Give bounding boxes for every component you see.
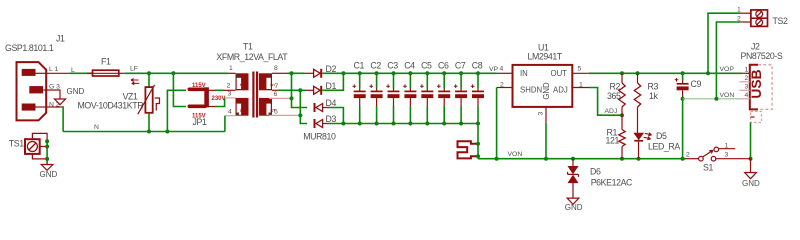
varistor VZ1 top wire — [148, 73, 150, 87]
wire L from J1 to fuse — [70, 72, 93, 74]
wire AC2 vertical to D3 cathode — [300, 90, 307, 123]
junction meander bottom lead — [476, 154, 480, 158]
wire bottom bus down to VON — [477, 124, 479, 159]
wire D1 cathode up to VP bus — [322, 73, 343, 90]
svg-text:C4: C4 — [404, 60, 415, 70]
VZ1 polarity arrow marks — [131, 79, 139, 85]
junction TS1 pin2 — [45, 145, 49, 149]
svg-text:C5: C5 — [421, 60, 432, 70]
junction bottom bus/C6 — [442, 122, 446, 126]
wire JP1 bottom pin to T1 pin3 — [209, 106, 216, 108]
connector J1 pin L blade — [22, 69, 47, 76]
junction AC2/pin5 — [298, 113, 302, 117]
junction VON/U1 GND — [544, 157, 548, 161]
wire U1 GND to VON — [545, 123, 547, 159]
svg-text:T1: T1 — [243, 42, 253, 52]
jumper JP1 top pin — [189, 88, 205, 92]
T1 pin 1 lead — [228, 72, 236, 74]
wire pin5 to AC2 vertical — [298, 114, 301, 116]
T1 winding C (pins 8-7) — [259, 73, 275, 90]
junction AC1/pin6 — [290, 96, 294, 100]
svg-text:4: 4 — [228, 109, 232, 116]
junction ADJ/R2/R1 — [620, 113, 624, 117]
resistor R2 — [607, 73, 625, 115]
J1 pin G lead — [46, 90, 60, 99]
T1 winding B (pins 3-4) — [236, 98, 249, 116]
junction C9 bottom — [681, 97, 685, 101]
diode D1 — [305, 81, 336, 95]
svg-text:3: 3 — [725, 152, 729, 159]
svg-text:VON: VON — [508, 151, 523, 158]
regulator U1 box — [513, 65, 573, 107]
capacitor C7 — [454, 60, 467, 123]
jumper JP1 bracket bar — [204, 87, 209, 107]
TS1 pin 1 lead — [32, 133, 47, 141]
svg-text:GND: GND — [67, 87, 85, 96]
terminal TS1 — [9, 139, 40, 154]
U1 OUT pin lead — [572, 72, 588, 74]
junction bottom bus/C1 — [358, 122, 362, 126]
svg-text:USB: USB — [749, 69, 764, 98]
diode D2 — [304, 64, 336, 78]
svg-text:2: 2 — [686, 152, 690, 159]
varistor VZ1 — [138, 85, 160, 114]
svg-text:2: 2 — [227, 83, 231, 90]
T1 winding D (pins 6-5) — [259, 98, 275, 116]
T1 pin 6 lead — [269, 97, 290, 99]
svg-text:LF: LF — [130, 65, 138, 72]
svg-text:4: 4 — [500, 66, 504, 73]
diode D4 — [314, 98, 337, 112]
svg-text:3: 3 — [228, 91, 232, 98]
svg-text:121: 121 — [606, 136, 620, 146]
svg-text:ADJ: ADJ — [605, 108, 618, 115]
capacitor C4 — [403, 60, 416, 123]
wire TS1 to ground — [46, 141, 48, 164]
junction bottom bus/C8 — [476, 122, 480, 126]
svg-text:N: N — [94, 124, 99, 131]
wire LF to JP1 bottom pin — [173, 73, 186, 106]
junction VON/D5 — [637, 157, 641, 161]
connector J1 body — [17, 62, 47, 120]
diode D3 — [314, 114, 337, 128]
U1 ADJ pin lead — [572, 87, 589, 89]
wire VP bus — [322, 72, 497, 74]
junction VP/C6 — [442, 71, 446, 75]
TS1 pin 2 lead — [40, 146, 47, 148]
connector J2 box — [749, 65, 772, 110]
svg-text:TS2: TS2 — [773, 16, 788, 26]
connector J1 pin N blade — [22, 104, 47, 111]
svg-text:3: 3 — [538, 112, 545, 116]
junction AC1 at pin8 row — [290, 71, 294, 75]
svg-text:C3: C3 — [387, 60, 398, 70]
svg-text:LED_RA: LED_RA — [648, 141, 680, 151]
fuse F1 — [87, 57, 125, 77]
svg-text:C9: C9 — [691, 79, 702, 89]
ground symbol at J1 — [55, 87, 85, 105]
svg-text:VON: VON — [720, 92, 735, 99]
U1 SHDN pin lead — [497, 87, 513, 89]
wire pin7 to D1 anode — [277, 89, 305, 91]
resistor R1 — [606, 115, 626, 159]
LED D5 — [634, 131, 680, 159]
wire VON row to J2 pin4 — [683, 98, 740, 100]
svg-text:GND: GND — [742, 179, 760, 188]
junction VOP/R2 — [620, 71, 624, 75]
junction shield/S1 pin3 — [749, 157, 753, 161]
svg-text:L: L — [71, 67, 75, 74]
junction N/JP1 — [165, 130, 169, 134]
junction VP/C4 — [408, 71, 412, 75]
svg-text:5: 5 — [238, 109, 244, 112]
svg-text:2: 2 — [745, 75, 749, 82]
svg-text:S1: S1 — [703, 163, 713, 173]
J2 pin 2 lead — [740, 81, 750, 83]
junction VP/C5 — [425, 71, 429, 75]
svg-text:MUR810: MUR810 — [303, 132, 336, 142]
capacitor C2 — [369, 60, 382, 123]
svg-text:C6: C6 — [438, 60, 449, 70]
capacitor C6 — [437, 60, 450, 123]
connector J1 pin G blade — [29, 86, 46, 93]
junction VOP/R3 — [636, 71, 640, 75]
U1 IN pin lead — [497, 72, 513, 74]
svg-text:MOV-10D431KTR: MOV-10D431KTR — [77, 101, 143, 111]
junction VP/D1 — [341, 71, 345, 75]
svg-text:L 1: L 1 — [49, 66, 58, 73]
junction VON/SHDN — [495, 157, 499, 161]
J1 pin N lead — [46, 106, 62, 108]
wire VON bus — [478, 158, 686, 160]
terminal TS2 — [751, 10, 788, 27]
switch S1 — [686, 142, 751, 172]
svg-text:C8: C8 — [472, 60, 483, 70]
junction LF/JP1 — [171, 71, 175, 75]
svg-text:1: 1 — [725, 142, 729, 149]
T1 pin 8 lead — [272, 72, 288, 74]
svg-text:3: 3 — [745, 84, 749, 91]
wire J2 shield to switch node — [750, 123, 752, 159]
capacitor C9 — [675, 73, 702, 99]
svg-text:C2: C2 — [370, 60, 381, 70]
junction bottom bus/C5 — [425, 122, 429, 126]
svg-text:7: 7 — [275, 83, 279, 90]
svg-text:8: 8 — [274, 65, 278, 72]
varistor VZ1 bottom wire — [148, 113, 150, 132]
junction VOP/TS2 — [706, 71, 710, 75]
wire bottom capacitor bus — [328, 123, 479, 125]
T1 core — [252, 72, 258, 118]
svg-text:GSP1.8101.1: GSP1.8101.1 — [5, 43, 54, 53]
capacitor C5 — [420, 60, 433, 123]
wire T1 pin4 to N bus — [224, 116, 226, 132]
svg-text:P6KE12AC: P6KE12AC — [591, 177, 633, 187]
junction TS1 pin1 — [45, 139, 49, 143]
junction meander top lead — [476, 142, 480, 146]
junction VP/C3 — [392, 71, 396, 75]
T1 pin 3 lead — [225, 97, 236, 99]
svg-text:D5: D5 — [656, 131, 667, 141]
T1 pin 5 lead — [269, 114, 298, 116]
svg-text:1: 1 — [745, 67, 749, 74]
svg-text:230V: 230V — [212, 96, 226, 102]
wire JP1 top pin to T1 pin2 — [209, 89, 216, 91]
wire N to JP1 top pin — [167, 90, 186, 131]
T1 winding A (pins 1-2) — [236, 73, 249, 90]
svg-text:PN87520-S: PN87520-S — [741, 51, 783, 61]
ground symbol at D6 — [565, 198, 583, 212]
junction bottom bus/C3 — [392, 122, 396, 126]
svg-text:VP: VP — [489, 66, 499, 73]
svg-text:4: 4 — [745, 92, 749, 99]
svg-text:J2: J2 — [751, 41, 760, 51]
capacitor C3 — [386, 60, 399, 123]
junction N/VZ1 — [147, 130, 151, 134]
svg-text:OUT: OUT — [551, 69, 568, 78]
capacitor C8 — [471, 60, 484, 123]
junction VON/D6 — [571, 157, 575, 161]
svg-text:SHDN: SHDN — [520, 86, 542, 95]
svg-text:D6: D6 — [590, 166, 601, 176]
svg-text:J1: J1 — [56, 34, 65, 44]
ground symbol at S1 — [742, 159, 760, 188]
junction VON/C9 — [681, 157, 685, 161]
J2 shield pad — [751, 112, 762, 123]
junction VON row/TS2 pin2 — [714, 97, 718, 101]
junction VP/C1 — [358, 71, 362, 75]
junction VP/C2 — [375, 71, 379, 75]
svg-text:GND: GND — [565, 203, 583, 212]
wire pin8 to D2 anode — [288, 72, 305, 74]
TVS diode D6 — [568, 159, 633, 198]
svg-text:GND: GND — [40, 170, 58, 179]
junction VP/C8 — [476, 71, 480, 75]
junction bottom bus/C7 — [459, 122, 463, 126]
wire ADJ net — [589, 88, 622, 116]
svg-text:LM2941T: LM2941T — [528, 52, 563, 62]
wire C9 bottom to VON bus — [682, 99, 684, 159]
svg-text:C1: C1 — [354, 60, 365, 70]
svg-text:IN: IN — [520, 69, 528, 78]
jumper JP1 bottom pin — [189, 105, 205, 109]
svg-text:115V: 115V — [192, 83, 206, 89]
wire N vertical from J1 — [62, 107, 63, 132]
wire D4 anode down to bottom bus — [328, 108, 344, 124]
svg-text:2: 2 — [238, 84, 244, 87]
wire TS2 pin1 to VOP — [708, 13, 740, 73]
TS1 pin 3 lead — [32, 154, 47, 159]
svg-text:1: 1 — [229, 65, 233, 72]
TS2 pin 1 lead — [740, 12, 751, 14]
wire VOP bus — [588, 72, 742, 74]
junction VOP/C9 — [681, 71, 685, 75]
svg-text:R3: R3 — [648, 81, 659, 91]
J2 pin 4 lead — [740, 98, 750, 100]
svg-text:5: 5 — [274, 109, 278, 116]
wire pin6 to AC1 vertical — [290, 97, 292, 99]
svg-text:C7: C7 — [455, 60, 466, 70]
svg-text:GND: GND — [542, 82, 551, 100]
U1 GND pin lead — [545, 107, 547, 123]
junction TS1 pin3 — [45, 157, 49, 161]
junction VP/C7 — [459, 71, 463, 75]
wire SHDN to VON — [496, 88, 498, 159]
wire LF bus — [125, 72, 228, 74]
svg-text:1k: 1k — [649, 91, 658, 101]
junction bottom bus/D4 — [341, 122, 345, 126]
T1 pin 7 lead — [272, 89, 277, 91]
J2 pin 3 lead — [740, 89, 750, 91]
junction VON/R1 — [620, 157, 624, 161]
junction bottom bus/C4 — [408, 122, 412, 126]
capacitor C1 — [353, 60, 366, 123]
svg-text:5: 5 — [578, 66, 582, 73]
meander wire link — [458, 141, 479, 158]
T1 pin 4 lead — [225, 115, 236, 117]
svg-text:ADJ: ADJ — [553, 86, 568, 95]
svg-text:F1: F1 — [101, 57, 111, 67]
svg-text:JP1: JP1 — [193, 117, 207, 127]
J2 pin 1 lead — [742, 72, 750, 74]
junction bottom bus/C2 — [375, 122, 379, 126]
svg-text:VOP: VOP — [720, 66, 735, 73]
wire AC1 vertical to D4 cathode — [292, 73, 308, 107]
svg-text:XFMR_12VA_FLAT: XFMR_12VA_FLAT — [216, 52, 288, 62]
resistor R3 — [634, 73, 658, 133]
svg-text:R2: R2 — [610, 81, 621, 91]
TS2 pin 2 lead — [740, 21, 751, 23]
svg-text:365: 365 — [607, 91, 621, 101]
svg-text:TS1: TS1 — [9, 139, 24, 149]
wire N bus — [63, 131, 225, 133]
svg-text:6: 6 — [274, 91, 278, 98]
ground symbol at TS1 — [40, 165, 58, 180]
junction LF/VZ1 — [147, 71, 151, 75]
wire TS2 pin2 to VON row — [716, 22, 740, 99]
J1 pin L lead — [46, 72, 70, 74]
junction AC2 at pin7 row — [298, 88, 302, 92]
